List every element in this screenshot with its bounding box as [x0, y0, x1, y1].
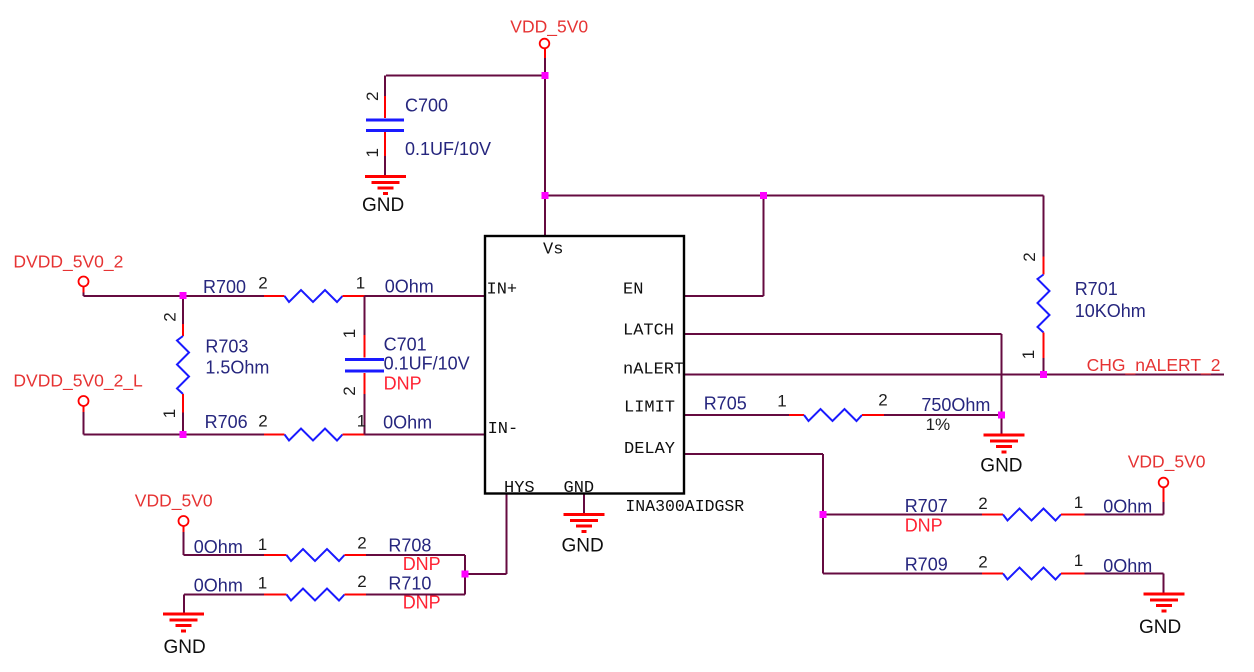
svg-text:2: 2	[161, 312, 180, 321]
svg-text:GND: GND	[164, 637, 206, 658]
svg-text:DNP: DNP	[384, 373, 422, 393]
svg-text:1: 1	[258, 535, 267, 554]
svg-text:C700: C700	[405, 96, 448, 116]
svg-text:0Ohm: 0Ohm	[1103, 556, 1152, 576]
svg-text:2: 2	[978, 494, 987, 513]
svg-text:0Ohm: 0Ohm	[1103, 497, 1152, 517]
svg-text:IN-: IN-	[488, 420, 519, 439]
svg-text:1: 1	[1074, 493, 1083, 512]
svg-text:C701: C701	[384, 334, 427, 354]
svg-text:DNP: DNP	[403, 554, 441, 574]
svg-text:2: 2	[357, 534, 366, 553]
svg-text:10KOhm: 10KOhm	[1075, 301, 1146, 321]
svg-text:R706: R706	[205, 412, 248, 432]
svg-text:LIMIT: LIMIT	[624, 399, 675, 418]
svg-text:INA300AIDGSR: INA300AIDGSR	[625, 497, 744, 516]
svg-text:0.1UF/10V: 0.1UF/10V	[405, 139, 491, 159]
svg-text:nALERT: nALERT	[623, 361, 684, 380]
svg-text:VDD_5V0: VDD_5V0	[135, 491, 213, 512]
svg-text:R708: R708	[388, 536, 431, 556]
svg-text:HYS: HYS	[504, 479, 535, 498]
svg-text:VDD_5V0: VDD_5V0	[510, 17, 588, 38]
svg-text:2: 2	[878, 391, 887, 410]
svg-text:R700: R700	[203, 277, 246, 297]
svg-text:2: 2	[363, 91, 382, 100]
svg-text:DVDD_5V0_2: DVDD_5V0_2	[13, 252, 123, 273]
svg-text:R707: R707	[905, 496, 948, 516]
svg-text:GND: GND	[562, 536, 604, 557]
svg-text:Vs: Vs	[543, 241, 563, 260]
svg-text:0Ohm: 0Ohm	[383, 413, 432, 433]
svg-text:GND: GND	[1139, 617, 1181, 638]
svg-text:R705: R705	[704, 394, 747, 414]
svg-text:1: 1	[340, 329, 359, 338]
svg-text:DVDD_5V0_2_L: DVDD_5V0_2_L	[13, 371, 143, 392]
svg-text:1%: 1%	[926, 415, 951, 434]
svg-text:1: 1	[258, 574, 267, 593]
svg-text:750Ohm: 750Ohm	[921, 395, 990, 415]
svg-text:0Ohm: 0Ohm	[385, 277, 434, 297]
svg-text:1: 1	[357, 412, 366, 431]
svg-text:GND: GND	[362, 195, 404, 216]
svg-text:2: 2	[1020, 252, 1039, 261]
svg-text:1: 1	[1074, 551, 1083, 570]
svg-text:R703: R703	[205, 337, 248, 357]
svg-text:1: 1	[777, 392, 786, 411]
svg-text:2: 2	[978, 553, 987, 572]
svg-text:0Ohm: 0Ohm	[194, 576, 243, 596]
svg-text:IN+: IN+	[487, 281, 518, 300]
svg-text:2: 2	[258, 412, 267, 431]
svg-text:LATCH: LATCH	[623, 322, 674, 341]
svg-text:1: 1	[356, 274, 365, 293]
svg-text:1: 1	[160, 409, 179, 418]
svg-text:1.5Ohm: 1.5Ohm	[205, 358, 269, 378]
svg-text:DNP: DNP	[403, 593, 441, 613]
svg-text:0.1UF/10V: 0.1UF/10V	[384, 353, 470, 373]
svg-text:0Ohm: 0Ohm	[194, 537, 243, 557]
svg-text:GND: GND	[980, 456, 1022, 477]
svg-text:GND: GND	[564, 479, 595, 498]
svg-text:DELAY: DELAY	[624, 440, 675, 459]
svg-text:DNP: DNP	[905, 516, 943, 536]
svg-text:2: 2	[258, 274, 267, 293]
svg-text:2: 2	[340, 386, 359, 395]
svg-text:2: 2	[357, 572, 366, 591]
svg-text:VDD_5V0: VDD_5V0	[1128, 452, 1206, 473]
svg-text:1: 1	[1019, 350, 1038, 359]
svg-text:R701: R701	[1075, 279, 1118, 299]
svg-text:1: 1	[363, 148, 382, 157]
svg-text:EN: EN	[623, 281, 643, 300]
svg-text:CHG_nALERT_2: CHG_nALERT_2	[1087, 355, 1221, 376]
svg-text:R709: R709	[905, 555, 948, 575]
svg-text:R710: R710	[388, 574, 431, 594]
